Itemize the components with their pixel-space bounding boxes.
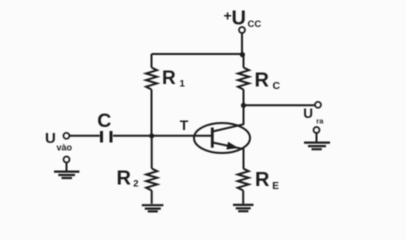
svg-text:1: 1 xyxy=(180,79,186,90)
svg-text:vào: vào xyxy=(57,142,73,152)
svg-text:R: R xyxy=(255,69,270,91)
svg-text:+: + xyxy=(224,8,232,24)
svg-text:E: E xyxy=(272,181,279,192)
svg-text:T: T xyxy=(180,117,189,133)
svg-text:U: U xyxy=(45,130,56,147)
svg-text:R: R xyxy=(117,167,132,189)
svg-text:CC: CC xyxy=(248,19,262,30)
svg-text:U: U xyxy=(232,7,246,29)
svg-text:C: C xyxy=(273,80,281,92)
svg-text:R: R xyxy=(162,68,176,89)
svg-text:ra: ra xyxy=(316,117,324,126)
svg-text:C: C xyxy=(97,110,111,132)
svg-text:2: 2 xyxy=(133,179,138,190)
svg-text:U: U xyxy=(303,106,313,121)
svg-text:R: R xyxy=(255,169,270,191)
